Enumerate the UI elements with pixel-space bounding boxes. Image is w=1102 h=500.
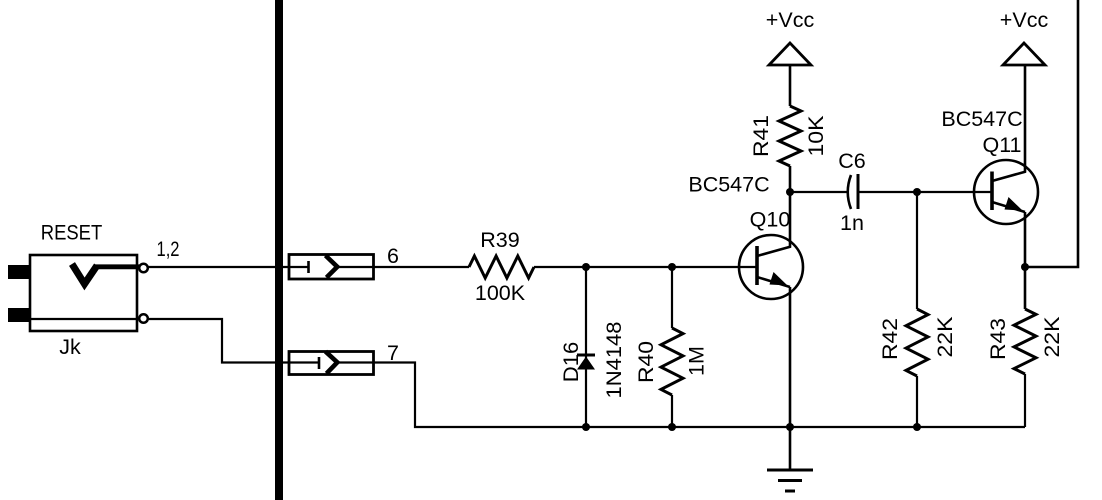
svg-text:R40: R40 (634, 341, 658, 383)
junction R42 ground rail (913, 423, 921, 431)
svg-text:R43: R43 (986, 318, 1010, 360)
transistor Q11 (974, 160, 1038, 224)
svg-text:+Vcc: +Vcc (1000, 8, 1049, 32)
connector 6 (289, 255, 374, 280)
svg-text:+Vcc: +Vcc (766, 8, 815, 32)
svg-text:R39: R39 (480, 228, 519, 252)
jack terminal pin 1 (139, 264, 148, 273)
wire jack tip to connector 6 (147, 266, 309, 268)
wire output node to right border (1025, 0, 1078, 267)
junction ground rail (786, 423, 794, 431)
wire jack sleeve to connector 7 (147, 319, 319, 363)
diode D16 (577, 267, 595, 427)
svg-text:BC547C: BC547C (941, 107, 1022, 131)
svg-text:R42: R42 (878, 318, 902, 360)
bus bar left border (275, 0, 283, 500)
jack terminal pin 2 (139, 314, 148, 323)
wire Vcc to R41 (789, 65, 792, 106)
svg-text:RESET: RESET (41, 221, 103, 245)
svg-text:Q10: Q10 (750, 208, 791, 232)
ground symbol (767, 427, 813, 491)
junction node R41 C6 Q10 (786, 188, 794, 196)
svg-text:1n: 1n (840, 211, 864, 235)
power +Vcc for Q11 (1000, 8, 1049, 65)
junction R40 top (668, 263, 676, 271)
wire connector 7 to ground rail (337, 363, 1025, 428)
svg-text:6: 6 (387, 244, 399, 268)
wire R39 to Q10 base (534, 266, 757, 268)
wire node to C6 (790, 191, 849, 193)
junction D16 top (582, 263, 590, 271)
svg-text:22K: 22K (933, 316, 957, 358)
resistor R40 (661, 267, 683, 427)
svg-text:1N4148: 1N4148 (602, 321, 626, 398)
resistor R42 (906, 192, 928, 427)
svg-text:R41: R41 (749, 115, 773, 157)
svg-text:C6: C6 (838, 149, 866, 173)
svg-text:1,2: 1,2 (157, 237, 180, 261)
svg-text:1M: 1M (685, 346, 709, 376)
resistor R39 (469, 256, 534, 278)
svg-text:BC547C: BC547C (688, 173, 769, 197)
svg-text:Q11: Q11 (982, 133, 1021, 157)
wire Vcc to Q11 collector (1024, 65, 1027, 172)
junction C6 R42 (913, 188, 921, 196)
capacitor C6 (848, 174, 858, 209)
wire connector 6 to R39 (337, 266, 469, 268)
svg-text:10K: 10K (804, 115, 828, 157)
svg-text:22K: 22K (1040, 316, 1064, 358)
connector 7 (289, 352, 374, 375)
resistor R41 (779, 106, 801, 166)
resistor R43 (1014, 309, 1036, 427)
wire C6 to Q11 base (858, 191, 992, 193)
junction D16 bottom (582, 423, 590, 431)
wire Q10 emitter to ground rail (789, 287, 792, 427)
svg-text:100K: 100K (475, 281, 526, 305)
wire Q10 collector (789, 192, 792, 247)
jack Jk body (8, 255, 137, 331)
power +Vcc for R41 (766, 8, 815, 65)
svg-text:D16: D16 (559, 342, 583, 383)
junction R40 bottom (668, 423, 676, 431)
jack switch lever (72, 264, 141, 284)
junction Q11 emitter output (1021, 263, 1029, 271)
wire R41 to node (789, 166, 792, 192)
wire Q11 emitter to R43 (1024, 212, 1027, 309)
transistor Q10 (739, 235, 803, 299)
svg-text:Jk: Jk (59, 335, 81, 359)
